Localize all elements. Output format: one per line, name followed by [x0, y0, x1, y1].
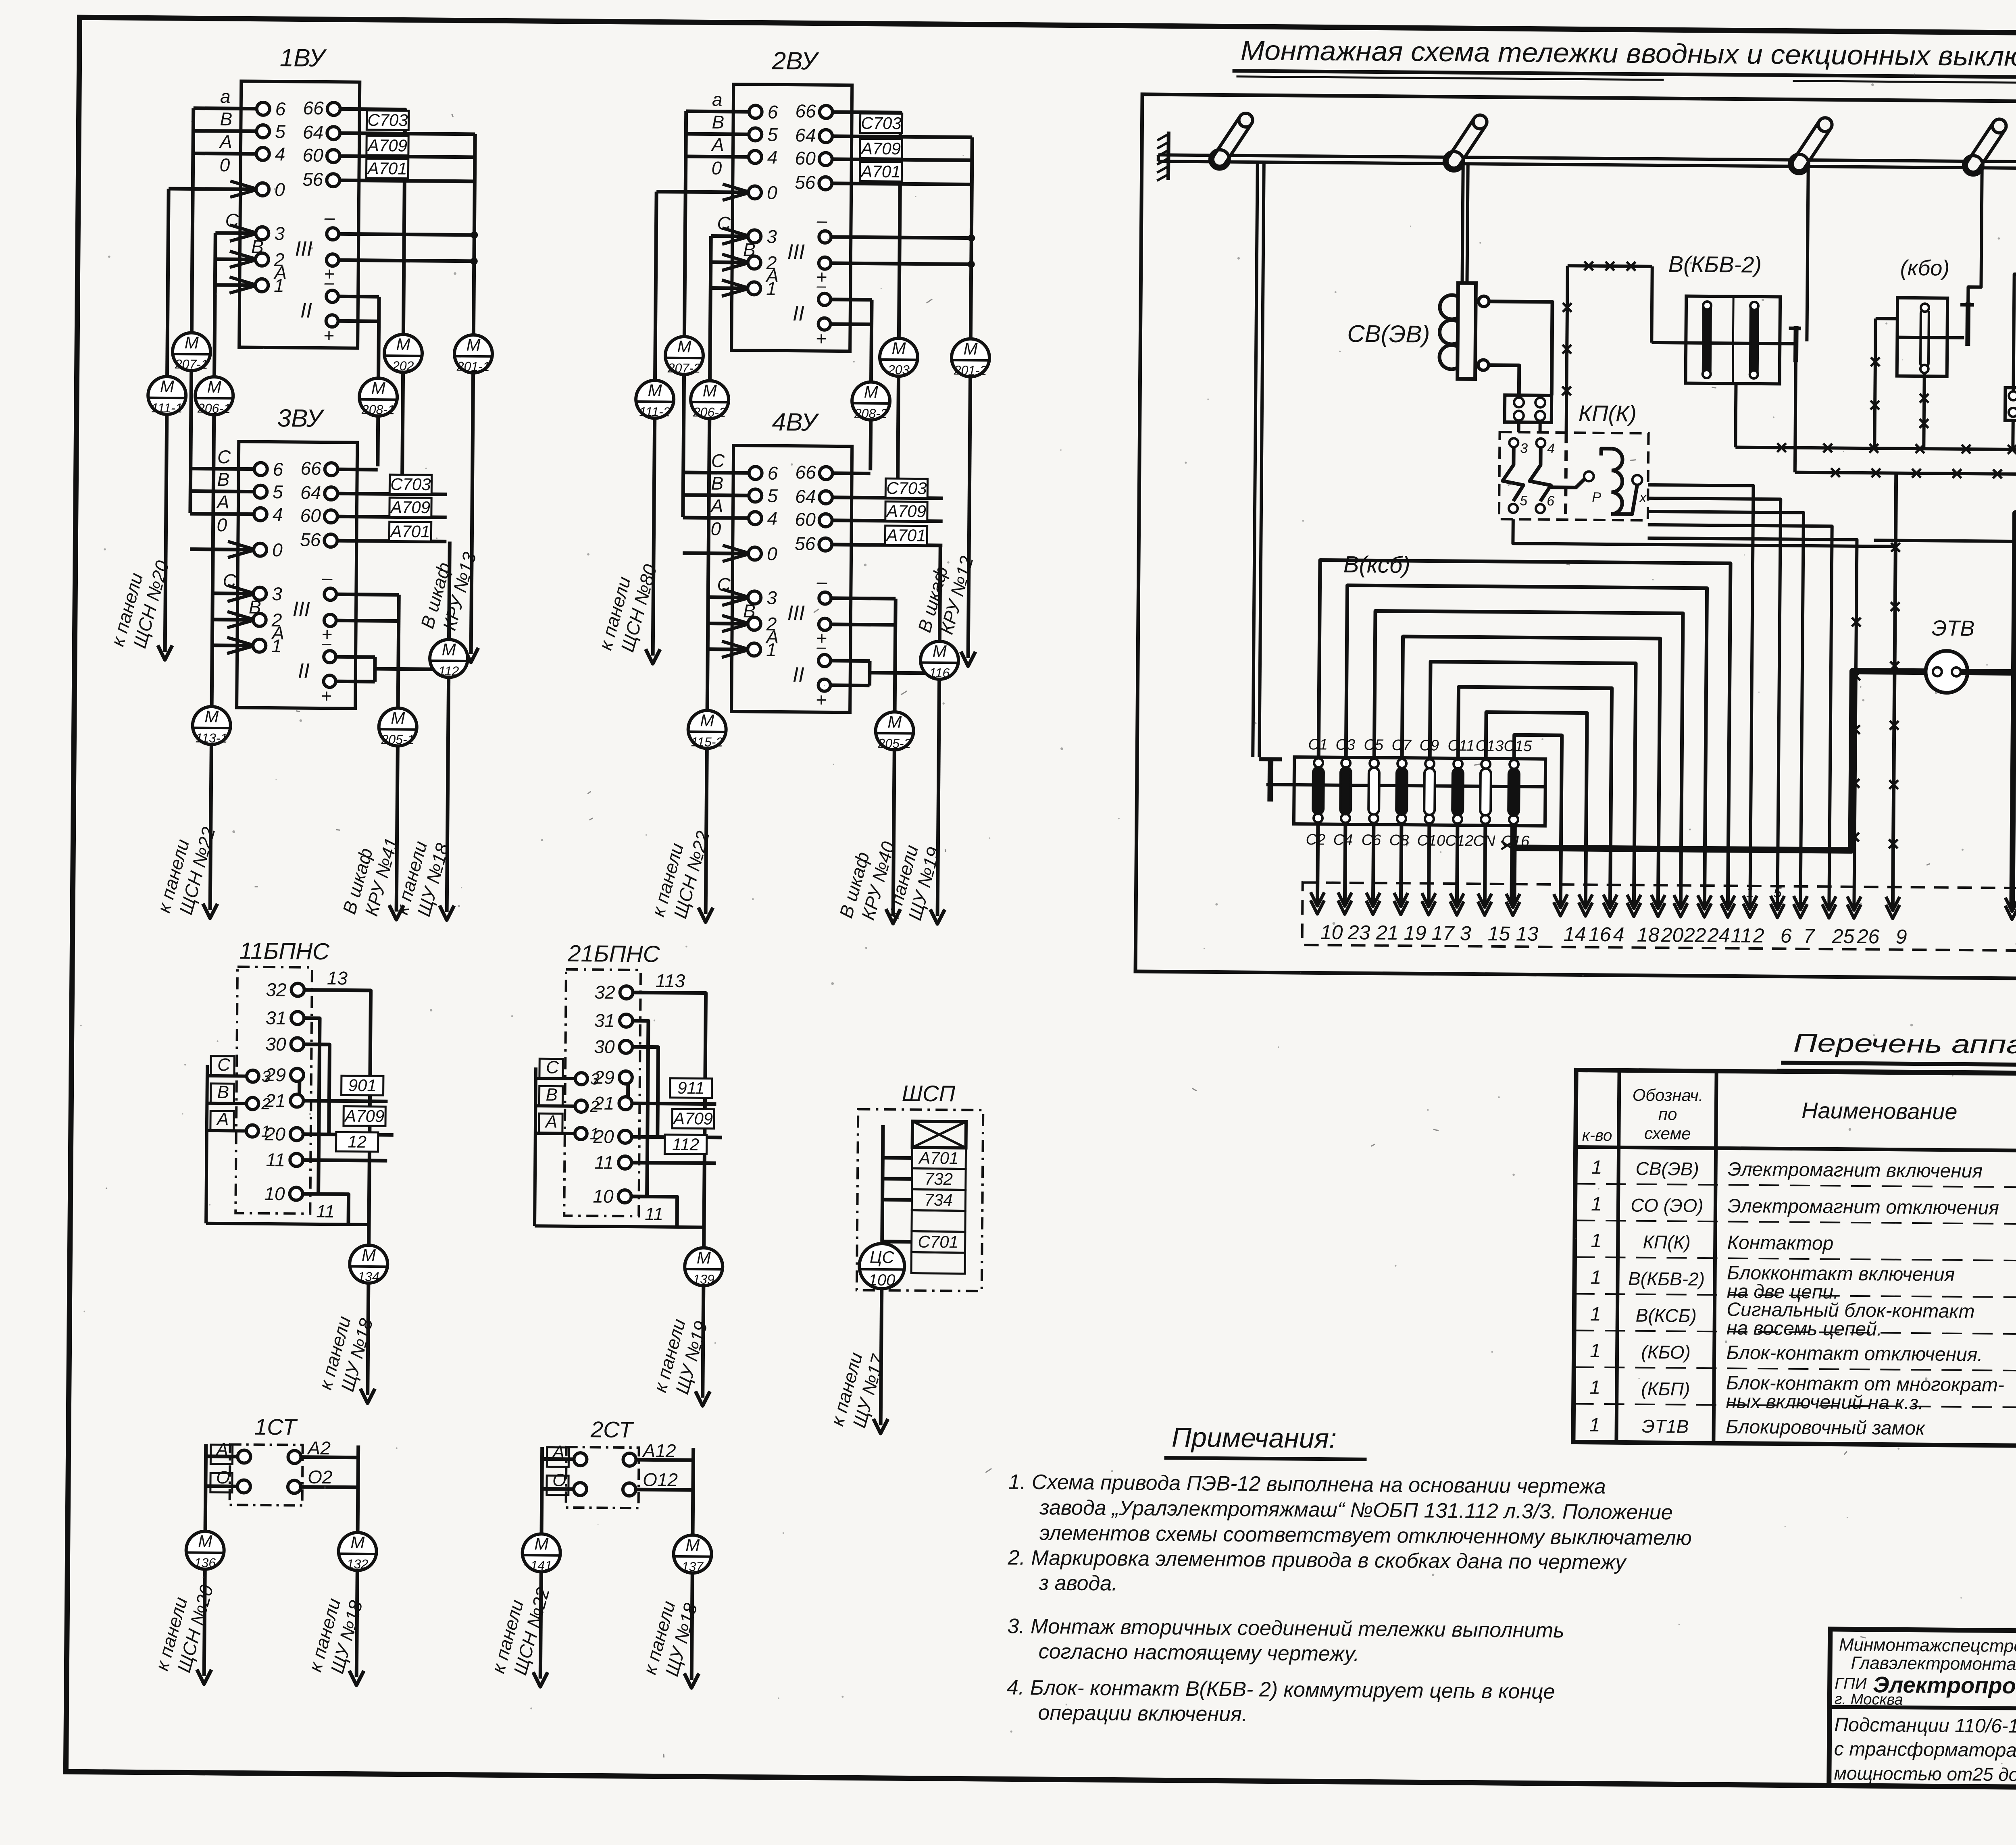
svg-text:М: М: [396, 335, 410, 354]
bus В шкаф КРУ №40: [895, 599, 896, 712]
cable marker М134: [350, 1245, 388, 1283]
svg-text:А: А: [216, 1109, 229, 1129]
svg-text:13: 13: [1516, 922, 1539, 945]
cable label А701: [389, 522, 431, 541]
svg-text:С9: С9: [1419, 737, 1439, 754]
svg-text:207-2: 207-2: [667, 361, 701, 376]
svg-text:В: В: [217, 469, 229, 490]
svg-text:з авода.: з авода.: [1039, 1571, 1118, 1595]
wire to РК contact 6: [1645, 498, 1781, 908]
svg-text:112: 112: [672, 1135, 699, 1154]
РК contact arrow 20: [1651, 903, 1665, 917]
svg-text:4: 4: [767, 147, 778, 168]
cable label А701: [366, 159, 408, 179]
4ВУ group III wires: [831, 598, 896, 599]
terminal block 2ВУ: [731, 47, 852, 351]
bus к панели ЩСН №20: [167, 189, 169, 376]
mechanical shaft: [1158, 155, 2016, 165]
svg-text:901: 901: [348, 1076, 377, 1095]
svg-text:А709: А709: [389, 497, 430, 517]
РК contact arrow 3: [1450, 901, 1464, 915]
svg-text:М: М: [371, 379, 385, 397]
svg-text:3: 3: [766, 226, 777, 247]
svg-text:С13: С13: [1475, 737, 1504, 755]
svg-text:С: С: [223, 570, 236, 591]
wire to РК contact 26: [1645, 538, 1857, 908]
svg-text:по: по: [1658, 1105, 1677, 1123]
svg-text:М: М: [891, 339, 906, 358]
svg-text:13: 13: [327, 967, 348, 988]
cable marker М139: [685, 1248, 723, 1286]
svg-text:207-1: 207-1: [175, 357, 208, 372]
svg-text:ЭТ1В: ЭТ1В: [1642, 1416, 1689, 1437]
svg-text:132: 132: [347, 1557, 369, 1571]
svg-text:II: II: [793, 302, 804, 325]
svg-text:М: М: [700, 711, 714, 730]
cable marker М203: [898, 376, 898, 495]
svg-text:С10: С10: [1417, 832, 1445, 849]
svg-text:С: С: [711, 450, 725, 471]
svg-text:3ВУ: 3ВУ: [277, 404, 325, 433]
svg-text:III: III: [787, 601, 805, 625]
terminal block 4ВУ: [731, 408, 852, 712]
svg-text:В(КБВ-2): В(КБВ-2): [1628, 1268, 1705, 1289]
svg-text:203: 203: [887, 362, 910, 377]
small terminal block 2x2: [1505, 395, 1552, 422]
svg-text:А709: А709: [860, 139, 901, 158]
svg-text:В(КБВ-2): В(КБВ-2): [1668, 251, 1762, 277]
svg-text:11: 11: [1731, 924, 1752, 946]
svg-text:64: 64: [795, 486, 816, 507]
svg-text:В: В: [546, 1085, 558, 1105]
4ВУ group II wires: [831, 659, 870, 663]
cable marker М202: [402, 372, 403, 491]
11БПНС internal jumpers: [303, 1018, 320, 1194]
РК contact arrow 17: [1422, 901, 1435, 915]
svg-text:В: В: [217, 1082, 229, 1102]
wire КБВ bottom to КБП (x-marked): [1735, 384, 1736, 447]
svg-text:х: х: [1639, 490, 1647, 505]
svg-text:С701: С701: [918, 1232, 958, 1252]
svg-text:М: М: [204, 707, 219, 726]
svg-text:4: 4: [1613, 923, 1624, 946]
svg-text:В: В: [711, 473, 723, 494]
svg-text:1: 1: [1589, 1377, 1600, 1398]
svg-text:С: С: [546, 1057, 559, 1077]
wire СВ(ЭВ) to terminal block: [1488, 302, 1552, 395]
bus к панели ЩСН №22 (2): [710, 236, 711, 381]
svg-text:10: 10: [593, 1186, 614, 1206]
svg-text:1: 1: [590, 1125, 599, 1143]
svg-text:64: 64: [303, 122, 324, 143]
svg-text:30: 30: [265, 1034, 286, 1055]
svg-text:139: 139: [693, 1272, 714, 1286]
svg-text:11: 11: [266, 1149, 285, 1170]
РК contact arrow 9: [1886, 905, 1899, 918]
svg-text:Наименование: Наименование: [1801, 1098, 1958, 1124]
svg-text:18: 18: [1637, 924, 1660, 946]
svg-text:–: –: [816, 210, 827, 231]
svg-text:С: С: [217, 446, 231, 467]
svg-text:II: II: [300, 299, 312, 322]
svg-text:А: А: [710, 134, 724, 155]
svg-text:С: С: [717, 574, 731, 595]
bell-crank lever 2: [1454, 122, 1480, 161]
svg-text:В: В: [251, 236, 264, 257]
svg-text:26: 26: [1857, 925, 1880, 948]
svg-text:0: 0: [711, 158, 722, 179]
terminal block 3ВУ: [237, 404, 358, 708]
svg-text:М: М: [185, 333, 199, 352]
svg-text:113-1: 113-1: [196, 731, 228, 746]
РК contact arrow 16: [1579, 903, 1592, 916]
svg-text:схеме: схеме: [1644, 1124, 1691, 1143]
svg-text:О2: О2: [308, 1466, 333, 1487]
svg-text:С15: С15: [1504, 738, 1532, 755]
cable label А701: [885, 526, 927, 545]
3ВУ phase feeder wires: [189, 446, 286, 654]
wire КБП right to box edge: [1874, 490, 2016, 543]
wires 2x2 block to КП: [1517, 422, 1520, 432]
svg-text:66: 66: [795, 100, 816, 121]
svg-text:31: 31: [594, 1010, 615, 1031]
РК contact arrow 13: [1506, 902, 1520, 915]
svg-text:6: 6: [768, 102, 778, 123]
svg-text:56: 56: [302, 169, 323, 190]
heavy wire ЭТВ to РК 8: [1959, 672, 2016, 910]
svg-text:–: –: [816, 276, 826, 295]
bell-crank lever 3: [1799, 125, 1825, 164]
note 1: [1008, 1470, 1692, 1550]
svg-text:1: 1: [1591, 1230, 1602, 1252]
svg-text:1: 1: [1589, 1414, 1600, 1436]
wire to РК contact 9 (x-marked): [1893, 473, 1896, 909]
4ВУ outgoing wires: [833, 471, 871, 475]
3ВУ group II wires: [336, 655, 375, 659]
wire contact С2 to РК 10: [1317, 822, 1318, 904]
svg-text:205-1: 205-1: [381, 732, 414, 747]
wire КСБ loop 8: [1513, 735, 1562, 906]
svg-text:201-1: 201-1: [456, 359, 490, 374]
svg-text:А701: А701: [918, 1148, 958, 1168]
svg-text:А709: А709: [344, 1106, 384, 1125]
svg-text:66: 66: [303, 98, 324, 119]
cable label С703: [389, 474, 431, 494]
svg-text:1: 1: [1746, 884, 1754, 901]
wire КП to КБВ (x-marked): [1568, 266, 1652, 266]
svg-text:–: –: [324, 273, 334, 292]
svg-text:Электромагнит отключения: Электромагнит отключения: [1727, 1195, 1999, 1219]
wire contact С10 to РК 17: [1429, 824, 1429, 905]
svg-text:Р: Р: [1592, 490, 1601, 505]
svg-text:2: 2: [589, 1098, 599, 1115]
2ВУ phase feeder wires: [656, 88, 780, 296]
svg-text:М: М: [677, 337, 691, 356]
cable marker М137: [673, 1535, 712, 1573]
svg-text:60: 60: [795, 148, 816, 168]
svg-text:+: +: [816, 689, 827, 710]
svg-text:100: 100: [868, 1271, 895, 1290]
svg-text:a: a: [220, 86, 231, 107]
svg-text:А709: А709: [672, 1109, 713, 1128]
svg-text:1ВУ: 1ВУ: [279, 44, 327, 72]
wire КСБ loop 1: [1317, 560, 1731, 907]
svg-text:21БПНС: 21БПНС: [567, 940, 660, 967]
wire КСБ loop 7: [1485, 712, 1587, 906]
svg-text:2: 2: [261, 1095, 271, 1113]
cable marker М206-1: [195, 377, 233, 415]
cable marker М111-1: [148, 376, 186, 415]
svg-text:3. Монтаж вторичных соедине: 3. Монтаж вторичных соединений тележки в…: [1007, 1614, 1564, 1642]
cable marker М116: [921, 641, 959, 680]
РК contact arrow 23: [1338, 901, 1352, 914]
svg-text:–: –: [816, 637, 826, 656]
svg-text:А: А: [710, 495, 723, 516]
cable label А701: [860, 162, 902, 181]
wire contact С4 to РК 23: [1345, 823, 1345, 904]
cable marker ЦС 100: [859, 1244, 905, 1289]
svg-text:В: В: [220, 108, 232, 129]
svg-text:5: 5: [1520, 493, 1527, 508]
svg-text:16: 16: [1589, 923, 1611, 946]
2ВУ group II wires: [831, 297, 872, 302]
svg-text:Блокировочный замок: Блокировочный замок: [1726, 1416, 1926, 1439]
4ВУ phase feeder wires: [682, 450, 780, 658]
cable label А709: [885, 501, 927, 521]
svg-text:ГПИ: ГПИ: [1835, 1675, 1867, 1693]
wire contact С12 to РК 3: [1457, 824, 1458, 905]
svg-text:202: 202: [392, 358, 414, 373]
svg-text:С6: С6: [1361, 832, 1381, 849]
svg-text:11: 11: [645, 1204, 663, 1224]
svg-text:М: М: [198, 1532, 212, 1551]
svg-text:6: 6: [767, 463, 778, 484]
svg-text:112: 112: [438, 664, 459, 678]
РК contact arrow 10: [1310, 900, 1324, 914]
svg-text:208-1: 208-1: [361, 402, 395, 417]
svg-text:3: 3: [1460, 922, 1471, 944]
block-contact (КБО): [1897, 256, 1974, 376]
svg-text:ных включений на к.з.: ных включений на к.з.: [1726, 1391, 1924, 1414]
svg-text:17: 17: [1432, 922, 1455, 944]
1ВУ group II wires: [339, 295, 379, 299]
bus В шкаф КРУ №41: [398, 595, 399, 708]
svg-text:+: +: [321, 685, 332, 706]
bell-crank lever 4: [1973, 126, 1999, 165]
svg-text:4: 4: [273, 504, 283, 525]
link rod to (КБО): [1968, 168, 1982, 302]
svg-text:В: В: [712, 112, 724, 133]
wire КБО left loop: [1876, 317, 1897, 320]
svg-text:24: 24: [1707, 924, 1730, 946]
wire КП to РК contact 9: [1513, 519, 1895, 546]
note 3: [1007, 1614, 1564, 1667]
svg-text:А: А: [273, 262, 287, 283]
svg-text:С2: С2: [1306, 831, 1325, 848]
wire to РК contact 25: [1645, 525, 1832, 908]
svg-text:–: –: [324, 207, 335, 228]
svg-text:60: 60: [300, 505, 321, 526]
cable marker М201-2: [952, 339, 990, 377]
svg-text:операции включения.: операции включения.: [1038, 1701, 1248, 1726]
svg-text:6: 6: [1781, 924, 1792, 947]
11БПНС phase feeders: [206, 1065, 207, 1223]
cable marker М115-2: [688, 710, 726, 749]
svg-text:5: 5: [1773, 884, 1782, 901]
РК contact arrow 15: [1478, 902, 1491, 915]
wire contact С8 to РК 19: [1401, 823, 1402, 905]
svg-text:732: 732: [925, 1169, 953, 1189]
svg-text:1: 1: [1591, 1194, 1602, 1215]
svg-text:М: М: [207, 377, 221, 396]
svg-text:734: 734: [924, 1190, 952, 1210]
cable marker М206-2: [691, 381, 729, 419]
cable marker М205-2: [875, 712, 914, 750]
svg-text:111-1: 111-1: [151, 401, 182, 416]
terminal block A (2x3): [2005, 388, 2016, 421]
svg-text:205-2: 205-2: [877, 736, 911, 751]
svg-text:0: 0: [272, 539, 283, 560]
2ВУ outgoing wires 66/64/60/56: [831, 112, 900, 338]
wire КБО bottom drop: [1924, 373, 1924, 449]
21БПНС internal jumpers: [631, 1021, 648, 1196]
left wall anchor: [1157, 131, 1168, 181]
svg-text:–: –: [816, 571, 827, 592]
svg-text:201-2: 201-2: [954, 363, 987, 378]
svg-text:II: II: [298, 659, 310, 683]
svg-text:1: 1: [1591, 1157, 1602, 1178]
svg-text:(КБО): (КБО): [1641, 1342, 1691, 1363]
svg-text:Подстанции 110/6-10кВ: Подстанции 110/6-10кВ: [1834, 1714, 2016, 1737]
РК contact arrow 7: [1793, 904, 1807, 918]
note 2: [1007, 1546, 1627, 1599]
11БПНС outgoing wires: [302, 990, 371, 1245]
svg-text:25: 25: [1832, 925, 1855, 947]
svg-text:21: 21: [1376, 921, 1399, 944]
2СТ wires: [541, 1447, 542, 1533]
svg-text:С8: С8: [1389, 832, 1409, 849]
РК contact arrow 25: [1822, 904, 1836, 918]
svg-text:С1: С1: [1308, 736, 1328, 753]
svg-text:М: М: [534, 1534, 548, 1553]
svg-text:11БПНС: 11БПНС: [239, 938, 330, 965]
heavy wire КБП to РК 12: [2012, 495, 2016, 911]
svg-text:206-2: 206-2: [693, 405, 726, 420]
svg-text:А: А: [219, 131, 232, 152]
svg-text:1: 1: [1590, 1340, 1601, 1362]
svg-text:4: 4: [275, 144, 285, 164]
wires terminal blocks down: [2011, 420, 2015, 449]
svg-text:А: А: [544, 1112, 558, 1132]
cable marker М141: [522, 1534, 560, 1572]
cable marker М136: [186, 1531, 224, 1569]
РК contact arrow 2: [1743, 904, 1757, 917]
3ВУ outgoing wires: [338, 468, 378, 472]
svg-text:(кбо): (кбо): [1900, 256, 1950, 281]
svg-text:19: 19: [1404, 921, 1427, 944]
wire КСБ loop 6: [1457, 687, 1612, 906]
svg-text:А701: А701: [885, 526, 926, 545]
wire contact С16 to РК 13: [1513, 824, 1514, 905]
svg-text:М: М: [887, 712, 902, 731]
svg-text:В: В: [743, 600, 756, 621]
bus к панели ЩУ №18: [449, 541, 450, 639]
svg-text:0: 0: [710, 518, 721, 539]
svg-text:911: 911: [677, 1078, 704, 1098]
drive schematic enclosure box: [1135, 94, 2016, 982]
svg-text:11: 11: [594, 1152, 614, 1173]
svg-text:Обознач.: Обознач.: [1633, 1086, 1704, 1105]
svg-text:6: 6: [273, 459, 283, 480]
svg-text:6: 6: [275, 98, 286, 119]
apparatus table: [1573, 1070, 2016, 1449]
cable label С703: [885, 478, 927, 498]
svg-text:5: 5: [273, 481, 283, 502]
svg-text:2СТ: 2СТ: [590, 1417, 634, 1442]
svg-text:6: 6: [1547, 493, 1554, 509]
disconnect contacts РК dashed box: [1302, 882, 2016, 951]
bus к панели ЩСН №22: [215, 233, 216, 377]
svg-text:115-2: 115-2: [691, 734, 723, 749]
svg-text:А709: А709: [885, 501, 926, 521]
svg-text:4. Блок- контакт В(КБВ- 2) к: 4. Блок- контакт В(КБВ- 2) коммутирует ц…: [1007, 1676, 1555, 1704]
svg-text:134: 134: [358, 1269, 379, 1284]
cable marker М207-1: [173, 333, 211, 371]
svg-text:2ВУ: 2ВУ: [771, 47, 819, 75]
svg-text:Электромагнит включения: Электромагнит включения: [1728, 1159, 1983, 1182]
svg-text:3: 3: [590, 1070, 600, 1088]
svg-text:ЦС: ЦС: [870, 1248, 895, 1267]
title block: organisation cell: [1833, 1635, 2016, 1710]
table rows: [1589, 1155, 2016, 1441]
svg-text:М: М: [442, 640, 456, 659]
cable marker М112: [430, 639, 468, 678]
bus к панели ЩСН №80: [655, 191, 656, 380]
1СТ wires: [205, 1444, 206, 1531]
svg-text:(КБП): (КБП): [1641, 1378, 1690, 1400]
roller contact assembly С1-С16: [1259, 757, 1545, 826]
svg-text:3: 3: [262, 1068, 271, 1086]
svg-text:М: М: [963, 339, 977, 358]
wire to РК contact 7: [1645, 512, 1804, 908]
svg-text:А: А: [216, 491, 229, 512]
svg-text:М: М: [697, 1248, 711, 1267]
svg-text:Примечания:: Примечания:: [1172, 1422, 1337, 1454]
svg-text:116: 116: [929, 666, 950, 680]
svg-text:М: М: [933, 642, 947, 661]
svg-text:ЭТВ: ЭТВ: [1932, 616, 1975, 641]
bus B phase 2: [684, 111, 686, 337]
svg-text:4ВУ: 4ВУ: [772, 408, 819, 437]
svg-text:А701: А701: [860, 162, 900, 181]
РК contact arrow 18: [1627, 903, 1641, 916]
svg-text:III: III: [295, 237, 312, 260]
svg-text:5: 5: [767, 485, 778, 506]
svg-text:СВ(ЭВ): СВ(ЭВ): [1635, 1158, 1699, 1179]
РК contact arrow 11: [1721, 903, 1735, 917]
svg-text:0: 0: [767, 543, 777, 564]
wire contact С14 to РК 15: [1485, 824, 1485, 905]
svg-text:О12: О12: [643, 1469, 678, 1490]
svg-text:5: 5: [767, 124, 778, 145]
svg-text:0: 0: [767, 182, 777, 203]
svg-text:11: 11: [316, 1202, 335, 1221]
svg-text:М: М: [350, 1533, 364, 1552]
svg-text:С: С: [717, 213, 731, 234]
РК contact arrow 6: [1770, 904, 1784, 917]
svg-text:ШСП: ШСП: [902, 1080, 955, 1106]
РК contact arrow 22: [1674, 903, 1687, 917]
